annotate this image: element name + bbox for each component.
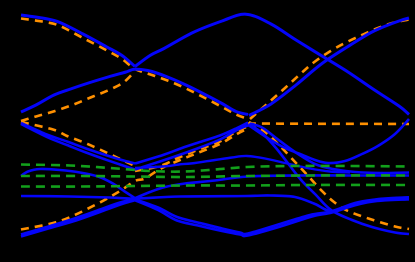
orange dashed band 4 [21, 128, 249, 230]
blue band 2 [21, 18, 409, 116]
blue band 1 [21, 14, 409, 114]
blue band 5 [21, 169, 409, 198]
green dashed flat band 3 [21, 185, 409, 187]
blue band 9 [249, 124, 409, 234]
green dashed flat band 1 [21, 165, 409, 172]
blue band 10 [135, 156, 350, 173]
orange dashed band 1 [21, 19, 409, 120]
green dashed flat band 2 [21, 175, 409, 177]
blue band 8 [21, 199, 409, 236]
orange dashed band 3 [21, 122, 409, 229]
blue band 6 [21, 195, 409, 211]
orange dashed band 2 [21, 71, 409, 124]
blue band 7 [21, 198, 409, 235]
blue band 3 [21, 123, 409, 174]
blue band 4 [21, 119, 409, 170]
